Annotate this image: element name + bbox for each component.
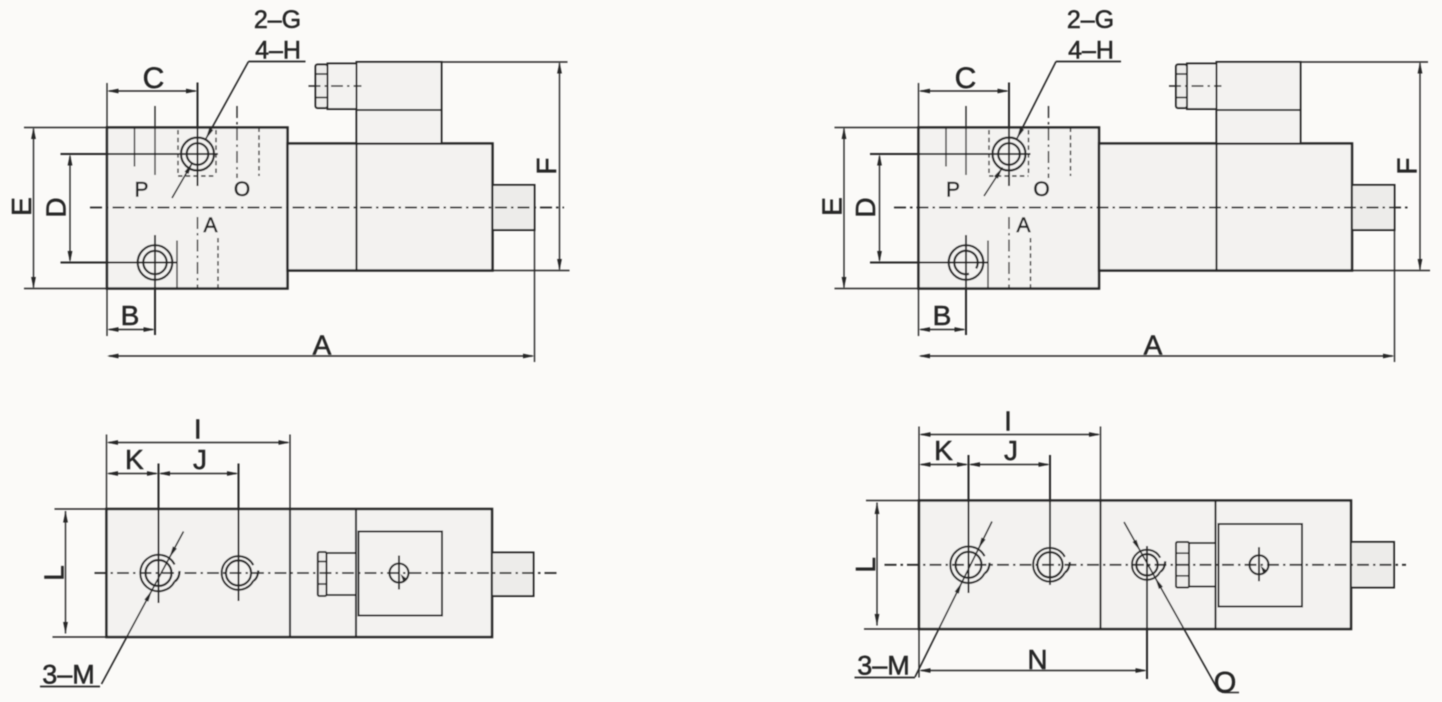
svg-text:O: O (1214, 667, 1237, 699)
svg-text:A: A (313, 330, 332, 361)
svg-text:A: A (203, 214, 217, 237)
svg-text:2–G: 2–G (1067, 6, 1114, 34)
svg-text:A: A (1016, 214, 1030, 237)
svg-text:K: K (125, 444, 144, 475)
svg-text:I: I (194, 414, 202, 445)
svg-text:B: B (933, 300, 952, 331)
svg-text:D: D (41, 197, 72, 217)
svg-text:C: C (955, 62, 977, 95)
svg-text:J: J (193, 444, 207, 475)
svg-text:F: F (1392, 157, 1423, 174)
svg-text:O: O (1033, 178, 1049, 201)
svg-text:L: L (39, 565, 70, 581)
svg-text:2–G: 2–G (254, 6, 301, 34)
svg-text:4–H: 4–H (255, 37, 301, 65)
svg-text:D: D (850, 197, 881, 217)
svg-text:B: B (121, 300, 140, 331)
svg-text:C: C (143, 62, 165, 95)
svg-text:3–M: 3–M (857, 651, 910, 681)
svg-text:3–M: 3–M (42, 660, 95, 690)
svg-text:A: A (1144, 330, 1163, 361)
svg-text:F: F (531, 157, 562, 174)
svg-text:J: J (1004, 435, 1018, 466)
svg-text:4–H: 4–H (1068, 37, 1114, 65)
svg-text:O: O (234, 178, 250, 201)
svg-text:K: K (934, 435, 953, 466)
svg-text:E: E (817, 197, 848, 216)
svg-text:P: P (946, 179, 960, 202)
svg-text:L: L (850, 557, 881, 573)
svg-text:I: I (1004, 406, 1012, 437)
svg-text:P: P (134, 179, 148, 202)
svg-text:N: N (1027, 644, 1047, 675)
svg-text:E: E (6, 197, 37, 216)
